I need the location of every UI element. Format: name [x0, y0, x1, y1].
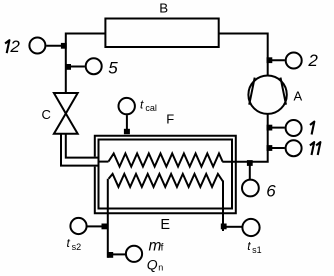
right drop line to ts1 node	[222, 181, 224, 232]
svg-text:A: A	[294, 89, 303, 104]
pipe from valve to tank (outer line)	[61, 134, 100, 166]
svg-text:B: B	[159, 1, 168, 16]
svg-text:2: 2	[307, 51, 318, 70]
svg-text:n: n	[158, 263, 163, 273]
svg-text:E: E	[160, 217, 170, 233]
sensor circle 5	[86, 58, 102, 74]
wire stub to sensor 5	[67, 66, 85, 68]
sensor circle t_s2	[70, 218, 86, 234]
label 12	[5, 40, 9, 53]
junction line from pipe to coil row 1	[100, 161, 109, 163]
left drop line to ts2 / mf nodes	[107, 179, 109, 258]
stub to sensor 6	[249, 163, 251, 179]
calorimeter tank inner wall	[99, 140, 233, 209]
svg-text:5: 5	[108, 58, 118, 77]
svg-text:6: 6	[266, 181, 276, 200]
svg-text:t: t	[140, 98, 144, 112]
wire from compressor bottom to suction corner	[222, 114, 267, 162]
node t_cal	[124, 129, 130, 134]
svg-text:s2: s2	[72, 242, 82, 252]
sensor circle 11	[286, 140, 302, 156]
svg-text:cal: cal	[145, 103, 157, 113]
compressor A	[248, 76, 286, 114]
svg-text:t: t	[67, 236, 71, 250]
sensor circle t_s1	[242, 219, 259, 236]
wire from condenser B right to compressor top	[219, 34, 268, 76]
sensor circle 12	[29, 38, 45, 54]
stub to sensor t_s2	[87, 225, 102, 227]
sensor circle 2	[286, 53, 302, 69]
node 1	[267, 125, 273, 131]
stub to t_cal sensor	[126, 115, 128, 134]
node m_f	[107, 252, 113, 258]
evaporator coil row 1	[109, 154, 223, 167]
wire stub to sensor 11	[268, 147, 284, 149]
evaporator coil row 2	[109, 174, 223, 187]
svg-text:C: C	[42, 107, 51, 122]
node t_s2	[102, 224, 108, 230]
svg-text:F: F	[166, 111, 174, 126]
label 11	[310, 142, 314, 155]
stub to sensor t_s1	[227, 226, 243, 228]
expansion valve C body	[54, 93, 78, 114]
svg-text:f: f	[161, 243, 164, 254]
label 1	[310, 122, 314, 135]
sensor circle 1	[286, 120, 302, 136]
svg-text:s1: s1	[252, 245, 262, 255]
svg-text:t: t	[247, 239, 251, 253]
pipe from valve to tank (inner line)	[66, 134, 100, 158]
stub to sensor m_f	[113, 253, 125, 255]
wire stub to sensor 1	[268, 127, 284, 129]
wire from valve top to condenser B left	[66, 34, 106, 95]
node 12	[61, 43, 67, 49]
svg-text:Q: Q	[147, 256, 158, 272]
svg-text:2: 2	[9, 37, 20, 56]
sensor circle m_f	[126, 246, 142, 262]
sensor circle t_cal	[119, 98, 135, 114]
calorimeter tank outer wall	[95, 136, 236, 214]
wire stub to sensor 2	[268, 59, 285, 61]
condenser B	[105, 19, 218, 48]
node t_s1	[221, 224, 227, 230]
wire stub to sensor 12	[46, 45, 64, 47]
svg-text:m: m	[149, 238, 162, 255]
node 11	[267, 145, 273, 151]
node 6	[247, 160, 253, 166]
node 5	[65, 64, 71, 70]
node 2	[267, 57, 273, 63]
sensor circle 6	[242, 180, 259, 197]
